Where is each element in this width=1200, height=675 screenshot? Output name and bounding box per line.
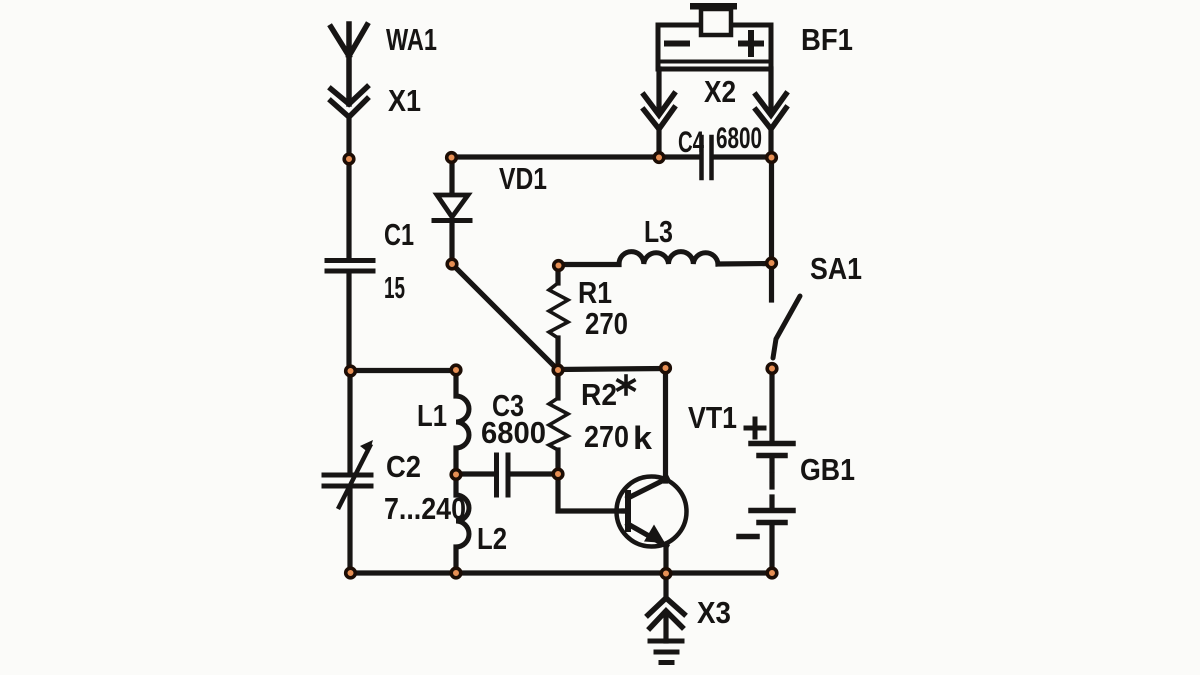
wire switch to battery [769, 368, 774, 441]
inductor L3 [559, 252, 772, 265]
wire C2 to bottom rail [347, 488, 352, 573]
node L3 right [767, 258, 777, 268]
wire bottom rail to X3 [663, 573, 668, 599]
wire diagonal VD1 to node R1 bottom [452, 264, 558, 370]
ground [650, 641, 682, 663]
svg-text:15: 15 [384, 270, 405, 305]
node C4 right [767, 153, 777, 163]
node battery rail [767, 568, 777, 578]
headphone BF1 [658, 3, 771, 69]
svg-text:BF1: BF1 [801, 22, 853, 57]
connector X2 left [644, 94, 674, 157]
svg-text:L2: L2 [477, 521, 507, 556]
label asterisk R2 [618, 376, 634, 394]
switch SA1 [773, 296, 800, 358]
inductor L1 [456, 370, 469, 475]
wire collector [663, 368, 668, 481]
antenna WA1 [331, 24, 367, 104]
wire C1 to node B [346, 273, 351, 371]
node emitter rail [661, 569, 671, 579]
wire BF1 right lead [768, 69, 773, 112]
capacitor C1 [327, 261, 373, 272]
svg-text:X2: X2 [704, 74, 736, 109]
svg-text:270: 270 [584, 419, 629, 454]
wire top rail y157 [451, 154, 659, 159]
diode VD1 [434, 157, 470, 264]
node VD1 bottom [447, 259, 457, 269]
wire L3 node to switch [769, 264, 774, 300]
svg-text:X1: X1 [388, 83, 421, 118]
node tank top left [346, 366, 356, 376]
svg-text:270: 270 [585, 306, 628, 341]
svg-text:L1: L1 [417, 398, 447, 433]
node switch bottom [767, 364, 777, 374]
connector X1 [331, 87, 367, 117]
variable capacitor C2 [324, 440, 373, 507]
resistor R2 [549, 370, 568, 474]
battery GB1 [739, 419, 793, 573]
node antenna junction [344, 154, 354, 164]
transistor VT1 [617, 477, 687, 547]
svg-text:6800: 6800 [481, 415, 546, 450]
node L1 top [451, 365, 461, 375]
node coil tap [451, 470, 461, 480]
capacitor C4 [659, 137, 771, 178]
wire node A to C1 [346, 158, 351, 258]
inductor L2 [456, 475, 469, 573]
node L2 bottom [451, 568, 461, 578]
svg-text:SA1: SA1 [810, 251, 862, 286]
svg-text:VT1: VT1 [688, 400, 737, 435]
svg-text:C2: C2 [386, 449, 421, 484]
svg-text:X3: X3 [697, 595, 731, 630]
svg-text:C1: C1 [384, 217, 414, 252]
wire X1 to node A [346, 117, 351, 158]
connector X2 right [756, 94, 786, 157]
node collector top [661, 363, 671, 373]
node R1 bottom R2 top [553, 365, 563, 375]
wire C4 right node down [769, 157, 774, 264]
svg-text:6800: 6800 [716, 122, 762, 155]
svg-text:C4: C4 [678, 126, 704, 159]
svg-text:GB1: GB1 [800, 452, 855, 487]
svg-text:k: k [633, 420, 652, 456]
svg-text:L3: L3 [644, 214, 673, 249]
connector X3 [648, 598, 684, 641]
node VD1 top [447, 153, 457, 163]
resistor R1 [549, 266, 568, 370]
svg-text:VD1: VD1 [499, 161, 547, 196]
svg-text:R2: R2 [581, 377, 617, 412]
capacitor C3 [456, 455, 558, 495]
wire BF1 left lead [656, 69, 661, 112]
wire top tank horizontal [350, 368, 456, 373]
node L3 left R1 top [554, 261, 564, 271]
wire R1 row horizontal [558, 369, 665, 370]
node C4 left [654, 153, 664, 163]
wire R2 bottom to base [558, 474, 624, 511]
svg-text:WA1: WA1 [386, 22, 437, 57]
node R2 bottom C3 right [553, 469, 563, 479]
node rail bottom left [346, 568, 356, 578]
svg-text:R1: R1 [578, 275, 612, 310]
wire node B to C2 [347, 371, 352, 473]
bottom rail wire [350, 570, 772, 575]
wire emitter to bottom rail [663, 545, 668, 573]
